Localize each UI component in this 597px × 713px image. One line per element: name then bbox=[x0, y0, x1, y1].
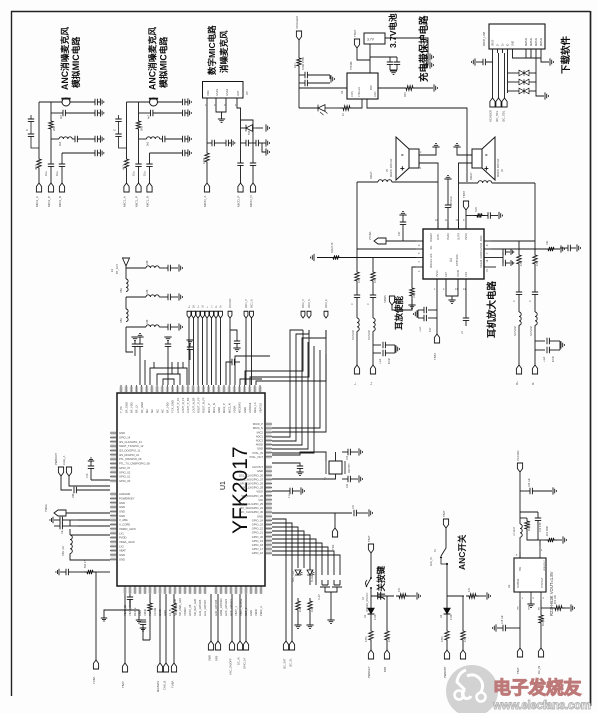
svg-text:I2S_DO/GPIO_11: I2S_DO/GPIO_11 bbox=[119, 449, 141, 453]
svg-text:100R 0.5W: 100R 0.5W bbox=[301, 56, 305, 70]
microphone MK2 bbox=[62, 98, 70, 106]
wire bbox=[519, 537, 521, 558]
resistor R bbox=[474, 213, 485, 217]
ground bbox=[188, 149, 191, 156]
wire bbox=[297, 613, 299, 625]
svg-text:TBAT: TBAT bbox=[367, 535, 371, 542]
capacitor C27 bbox=[400, 222, 406, 224]
LED bbox=[307, 570, 313, 575]
wire bbox=[396, 64, 398, 70]
wire bbox=[540, 626, 542, 648]
capacitor C bbox=[140, 622, 146, 624]
wire bbox=[539, 540, 541, 546]
wire bbox=[299, 107, 318, 109]
wire bbox=[508, 81, 520, 83]
svg-text:VDD: VDD bbox=[206, 90, 210, 96]
ground bbox=[327, 620, 334, 623]
svg-text:GPIO_18: GPIO_18 bbox=[252, 543, 264, 547]
wire bbox=[519, 491, 521, 524]
wire bbox=[411, 299, 413, 305]
wire bbox=[402, 224, 404, 241]
wire bbox=[60, 571, 66, 573]
ground bbox=[131, 337, 138, 340]
ground bbox=[186, 340, 193, 343]
svg-text:-INR2: -INR2 bbox=[480, 235, 483, 242]
svg-text:C4K: C4K bbox=[147, 289, 149, 294]
wire bbox=[134, 341, 136, 344]
svg-text:模拟MIC电路: 模拟MIC电路 bbox=[70, 36, 81, 88]
svg-text:1A: 1A bbox=[202, 305, 205, 308]
resistor R 2K2 bbox=[296, 598, 300, 613]
capacitor C bbox=[348, 476, 350, 482]
sheet border left bbox=[11, 11, 13, 696]
port TBAT bbox=[443, 519, 448, 528]
port GPIO_14 bbox=[243, 641, 248, 650]
svg-text:LX2: LX2 bbox=[119, 544, 124, 548]
resistor R bbox=[330, 255, 342, 259]
inductor L6 bbox=[478, 181, 492, 183]
wire bbox=[272, 330, 309, 441]
wire bbox=[272, 535, 310, 585]
svg-text:47R: 47R bbox=[358, 278, 361, 283]
port 1A bbox=[201, 311, 205, 318]
wire bbox=[424, 57, 428, 65]
capacitor bbox=[28, 134, 34, 136]
wire bbox=[210, 594, 212, 641]
wire bbox=[357, 181, 378, 183]
ground bbox=[231, 139, 234, 146]
wire bbox=[272, 330, 326, 445]
port VCC18C bbox=[228, 311, 232, 318]
svg-text:GND: GND bbox=[243, 407, 247, 413]
wire bbox=[256, 127, 263, 129]
U4 pin 16 bbox=[484, 257, 491, 259]
wire bbox=[497, 627, 503, 629]
capacitor C bbox=[75, 136, 77, 142]
port MICD_A bbox=[204, 183, 209, 192]
wire bbox=[549, 340, 560, 342]
svg-text:47K: 47K bbox=[398, 587, 401, 592]
ground bbox=[266, 124, 269, 131]
svg-text:GND: GND bbox=[119, 505, 125, 509]
wire bbox=[207, 142, 212, 144]
wire bbox=[369, 44, 371, 60]
capacitor C bbox=[66, 569, 68, 575]
wire bbox=[447, 179, 449, 205]
svg-text:MIC1_P: MIC1_P bbox=[207, 403, 211, 413]
wire bbox=[150, 368, 187, 385]
wire bbox=[373, 352, 381, 354]
svg-text:VDDIO: VDDIO bbox=[183, 607, 187, 616]
svg-text:LX1: LX1 bbox=[119, 531, 124, 535]
svg-text:EN: EN bbox=[539, 607, 541, 610]
svg-text:BF_VDD: BF_VDD bbox=[130, 402, 134, 413]
svg-text:I2S1_CLK/GPIO_20: I2S1_CLK/GPIO_20 bbox=[239, 473, 264, 477]
svg-text:PTL_TX_CNBP/GPIO_08: PTL_TX_CNBP/GPIO_08 bbox=[119, 462, 150, 466]
svg-text:CHG_B: CHG_B bbox=[163, 681, 167, 690]
U4 pin 14 bbox=[465, 279, 467, 286]
svg-text:MICBIAS: MICBIAS bbox=[238, 402, 242, 413]
port YWRA bbox=[54, 510, 66, 516]
wire bbox=[206, 318, 208, 385]
capacitor C to ground bbox=[226, 140, 231, 146]
ground bbox=[563, 536, 566, 543]
capacitor C bbox=[48, 164, 54, 166]
capacitor C bbox=[234, 341, 240, 343]
svg-text:VDDA: VDDA bbox=[233, 405, 237, 413]
svg-text:BF_GND: BF_GND bbox=[124, 402, 128, 413]
svg-text:KT8T220: KT8T220 bbox=[455, 254, 459, 266]
wire bbox=[129, 594, 131, 597]
svg-text:+: + bbox=[484, 164, 489, 173]
wire bbox=[272, 463, 300, 466]
svg-text:VCHGER: VCHGER bbox=[489, 110, 493, 122]
svg-text:DBE: DBE bbox=[120, 288, 123, 293]
ground bbox=[359, 448, 362, 455]
svg-text:10u: 10u bbox=[55, 171, 59, 176]
resistor R 100K bbox=[410, 285, 414, 299]
port MIC1_A bbox=[124, 183, 129, 192]
wire bbox=[104, 610, 130, 618]
wire bbox=[193, 318, 195, 385]
capacitor C bbox=[383, 342, 385, 348]
capacitor C bbox=[383, 350, 385, 356]
port TBAT bbox=[434, 334, 439, 343]
svg-text:2YVBA: 2YVBA bbox=[368, 231, 372, 240]
svg-text:GND: GND bbox=[257, 469, 263, 473]
svg-text:SWB: SWB bbox=[208, 655, 212, 661]
wire bbox=[134, 346, 136, 352]
port YUBA bbox=[171, 663, 176, 672]
resistor R bbox=[517, 252, 521, 267]
wire bbox=[299, 74, 305, 76]
wire bbox=[520, 490, 530, 492]
resistor R bbox=[545, 247, 557, 251]
port BFB bbox=[384, 650, 389, 659]
wire bbox=[139, 337, 141, 344]
watermark logo circle bbox=[446, 665, 498, 713]
wire bbox=[549, 349, 560, 351]
port L- bbox=[205, 311, 209, 318]
svg-text:MIC1_N: MIC1_N bbox=[146, 196, 150, 207]
capacitor C18 bbox=[503, 625, 505, 631]
resistor R bbox=[37, 156, 41, 171]
resistor R10 10K bbox=[552, 606, 565, 610]
ground bbox=[233, 348, 240, 351]
svg-text:GPIO_21: GPIO_21 bbox=[252, 531, 264, 535]
ground bbox=[311, 254, 314, 261]
capacitor C bbox=[305, 80, 307, 86]
wire bbox=[373, 344, 381, 346]
svg-text:CLKOUT: CLKOUT bbox=[252, 465, 263, 469]
inductor L bbox=[357, 318, 359, 331]
wire bbox=[78, 525, 110, 527]
wire bbox=[272, 547, 328, 575]
wire bbox=[159, 326, 168, 328]
svg-text:GND: GND bbox=[119, 431, 125, 435]
wire bbox=[69, 529, 71, 535]
wire bbox=[72, 138, 75, 140]
port MIC2_N bbox=[59, 183, 64, 192]
capacitor C19 bbox=[535, 518, 541, 520]
port SDWN bbox=[389, 296, 394, 305]
inductor bbox=[520, 524, 522, 537]
wire bbox=[239, 594, 241, 641]
wire bbox=[272, 350, 320, 428]
wire bbox=[441, 528, 446, 556]
wire bbox=[262, 143, 266, 152]
svg-text:GPIO_16: GPIO_16 bbox=[252, 551, 264, 555]
wire bbox=[329, 75, 331, 79]
svg-text:AVDD: AVDD bbox=[256, 443, 263, 447]
TVS diode D bbox=[246, 125, 256, 132]
wire bbox=[215, 318, 217, 385]
svg-text:R19 360K: R19 360K bbox=[547, 525, 549, 536]
wire bbox=[229, 318, 231, 385]
U1 right pin numbers upper bbox=[266, 423, 272, 426]
push button K2 bbox=[320, 580, 330, 587]
svg-text:U3: U3 bbox=[340, 90, 344, 94]
wire bbox=[51, 138, 59, 140]
svg-text:BF_VDD: BF_VDD bbox=[166, 402, 170, 413]
wire bbox=[412, 267, 416, 285]
svg-text:NC/NOM: NC/NOM bbox=[514, 326, 517, 336]
svg-text:DBE L10: DBE L10 bbox=[62, 545, 65, 556]
svg-text:2A: 2A bbox=[193, 305, 196, 308]
ground bbox=[408, 305, 415, 308]
wire bbox=[182, 362, 184, 368]
ground bbox=[553, 487, 556, 494]
svg-text:I2S_CLK/GPIO_13: I2S_CLK/GPIO_13 bbox=[119, 440, 142, 444]
wire bbox=[462, 596, 464, 628]
wire bbox=[334, 513, 336, 528]
svg-text:VIN: VIN bbox=[518, 606, 520, 610]
wire bbox=[250, 330, 309, 385]
svg-text:8Ω2W 180mW: 8Ω2W 180mW bbox=[389, 158, 393, 177]
capacitor bbox=[115, 134, 121, 136]
resistor R27 bbox=[297, 55, 301, 69]
svg-text:BFB: BFB bbox=[383, 667, 387, 672]
wire bbox=[370, 553, 372, 578]
wire bbox=[167, 360, 169, 385]
wire bbox=[386, 643, 388, 650]
wire bbox=[372, 258, 374, 269]
svg-text:SPI_DO/GPIO_26: SPI_DO/GPIO_26 bbox=[241, 494, 263, 498]
ground bbox=[448, 300, 455, 303]
inductor L bbox=[535, 312, 537, 325]
inductor L bbox=[146, 325, 159, 327]
wire bbox=[142, 624, 144, 628]
svg-text:VBAT33: VBAT33 bbox=[258, 403, 262, 413]
wire bbox=[38, 102, 40, 156]
U1 right pins lower bbox=[265, 466, 272, 468]
svg-text:+1uF: +1uF bbox=[419, 326, 422, 332]
svg-text:26M 9PF: 26M 9PF bbox=[348, 463, 351, 473]
svg-text:GDM_GPIO03: GDM_GPIO03 bbox=[219, 598, 223, 616]
wire bbox=[272, 551, 334, 575]
wire bbox=[144, 360, 146, 385]
svg-text:PVDD: PVDD bbox=[465, 233, 468, 240]
svg-text:V_CORE: V_CORE bbox=[119, 523, 130, 527]
U1 left pin numbers lower bbox=[111, 493, 117, 496]
inductor bbox=[126, 309, 128, 322]
ground bbox=[100, 109, 103, 116]
wire bbox=[502, 252, 504, 263]
J1 pin bbox=[530, 49, 532, 53]
wire bbox=[134, 352, 136, 356]
wire bbox=[462, 643, 464, 650]
port PWBOOT bbox=[58, 467, 63, 476]
wire bbox=[126, 326, 146, 328]
svg-text:电子发烧友: 电子发烧友 bbox=[493, 677, 581, 698]
wire bbox=[353, 99, 362, 108]
svg-text:100K: 100K bbox=[413, 292, 416, 298]
svg-text:D1GA4: D1GA4 bbox=[480, 259, 483, 268]
wire bbox=[537, 520, 539, 540]
wire bbox=[139, 112, 151, 114]
svg-text:5V6: 5V6 bbox=[248, 130, 251, 135]
speaker J6 bbox=[482, 137, 495, 180]
wire bbox=[452, 286, 458, 296]
wire bbox=[535, 53, 537, 58]
wire bbox=[125, 327, 127, 338]
svg-text:AVDD18: AVDD18 bbox=[248, 402, 252, 413]
svg-text:I2C_SAT: I2C_SAT bbox=[283, 658, 287, 669]
wire bbox=[149, 614, 151, 640]
svg-text:BT_ANT: BT_ANT bbox=[115, 264, 119, 274]
wire bbox=[61, 153, 63, 164]
wire bbox=[424, 56, 428, 58]
ground bbox=[499, 212, 502, 219]
svg-text:C27: C27 bbox=[398, 231, 401, 236]
svg-text:BLUE: BLUE bbox=[311, 575, 314, 582]
ground bbox=[561, 341, 564, 348]
svg-text:OUTR: OUTR bbox=[458, 233, 461, 240]
svg-text:C28 10uF: C28 10uF bbox=[450, 196, 453, 207]
svg-text:GND: GND bbox=[119, 501, 125, 505]
capacitor C bbox=[503, 249, 505, 255]
port I2C_SL bbox=[289, 641, 294, 650]
wire bbox=[245, 318, 247, 385]
LED bbox=[295, 570, 301, 575]
svg-text:GPIO_02: GPIO_02 bbox=[119, 470, 131, 474]
port VCHGER bbox=[296, 31, 301, 40]
wire bbox=[159, 594, 161, 663]
svg-text:4148: 4148 bbox=[374, 614, 377, 620]
ground bbox=[511, 260, 514, 266]
resistor R12 bbox=[525, 518, 529, 532]
svg-text:GND: GND bbox=[119, 514, 125, 518]
J1 pin bbox=[497, 49, 499, 53]
wire bbox=[520, 511, 538, 513]
U5 pin bbox=[206, 98, 208, 103]
wire bbox=[446, 614, 448, 628]
switch K4 bbox=[370, 577, 372, 579]
wire bbox=[70, 553, 110, 560]
U4 pin 7 bbox=[484, 248, 491, 250]
wire bbox=[307, 74, 330, 76]
port MIC2_P bbox=[301, 311, 305, 318]
U4 pin 3 bbox=[416, 266, 423, 268]
port L+ bbox=[210, 311, 214, 318]
svg-text:MIC1_A: MIC1_A bbox=[123, 196, 127, 207]
capacitor C bbox=[488, 212, 490, 218]
port MIC2_N bbox=[307, 311, 311, 318]
wire bbox=[125, 297, 127, 309]
wire bbox=[476, 61, 483, 63]
wire bbox=[272, 346, 314, 453]
J1 pin bbox=[535, 49, 537, 53]
wire bbox=[139, 346, 141, 385]
capacitor C bbox=[232, 359, 234, 365]
svg-text:GND: GND bbox=[257, 447, 263, 451]
capacitor C bbox=[212, 140, 214, 146]
svg-text:2K2: 2K2 bbox=[52, 126, 56, 131]
ground bbox=[136, 620, 142, 623]
ground bbox=[444, 176, 451, 179]
wire bbox=[272, 354, 326, 432]
wire bbox=[272, 452, 326, 461]
wire bbox=[356, 182, 358, 249]
svg-text:I2C_SCL/GPIO_25: I2C_SCL/GPIO_25 bbox=[240, 502, 263, 506]
svg-text:VMID: VMID bbox=[254, 609, 258, 616]
svg-text:GPIO_07: GPIO_07 bbox=[119, 466, 131, 470]
svg-text:VCHGER: VCHGER bbox=[295, 15, 299, 29]
svg-text:ANC_LED: ANC_LED bbox=[292, 571, 295, 582]
capacitor C bbox=[424, 62, 426, 68]
ground bbox=[88, 458, 94, 461]
wire bbox=[272, 330, 303, 437]
wire bbox=[197, 318, 199, 385]
ground bbox=[331, 75, 334, 82]
svg-text:YFK2017: YFK2017 bbox=[229, 446, 252, 534]
wire bbox=[459, 182, 479, 184]
ground bbox=[188, 109, 191, 116]
wire bbox=[416, 87, 433, 89]
svg-text:NC/NOM: NC/NOM bbox=[368, 330, 371, 340]
svg-text:GPIO_20: GPIO_20 bbox=[252, 535, 264, 539]
svg-text:DEBUG: DEBUG bbox=[526, 38, 528, 46]
ground bbox=[296, 472, 303, 475]
svg-text:YD3: YD3 bbox=[331, 544, 335, 550]
ground bbox=[50, 517, 53, 523]
wire bbox=[541, 607, 552, 609]
resistor R bbox=[371, 269, 375, 284]
svg-text:D-: D- bbox=[498, 43, 500, 46]
wire bbox=[446, 643, 448, 650]
svg-text:VBAT_1: VBAT_1 bbox=[234, 606, 238, 616]
wire bbox=[465, 210, 467, 222]
wire bbox=[385, 344, 395, 346]
U4 pin 9 bbox=[465, 222, 467, 229]
svg-text:RFB: RFB bbox=[215, 656, 219, 661]
wire bbox=[240, 379, 262, 385]
ground bbox=[430, 61, 433, 68]
svg-text:BF_LX: BF_LX bbox=[135, 405, 139, 413]
wire bbox=[138, 132, 140, 164]
svg-text:C19 6.8P: C19 6.8P bbox=[540, 522, 542, 532]
wire bbox=[50, 167, 52, 184]
svg-text:TBAT: TBAT bbox=[353, 29, 357, 37]
wire bbox=[258, 142, 266, 144]
wire bbox=[419, 147, 436, 155]
ground bbox=[188, 98, 191, 105]
wire bbox=[370, 588, 372, 608]
wire bbox=[231, 594, 233, 641]
regulator U2 SDB612 bbox=[514, 558, 546, 592]
wire bbox=[371, 595, 394, 597]
wire bbox=[519, 472, 521, 491]
